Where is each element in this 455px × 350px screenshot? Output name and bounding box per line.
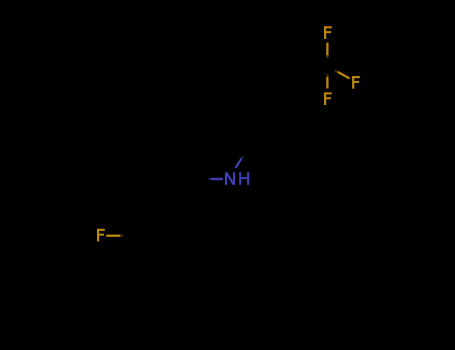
wire fade C-F1: [326, 55, 328, 58]
wire fade F4-C: [120, 235, 123, 237]
wire fade N-C: [242, 156, 244, 158]
wire bond C-F3 (goldenrod half): [326, 77, 328, 89]
wire bond N-C diagonal (blue half): [236, 158, 242, 168]
fluorine F2 label (right of CF3): [352, 76, 360, 89]
wire bond F4-C (goldenrod half): [106, 235, 120, 237]
wire fade C-F3: [326, 74, 328, 77]
wire bond C-F1 (goldenrod half, fades to carbon): [326, 43, 328, 56]
fluorine F3 label (bottom of CF3): [324, 92, 332, 105]
fluorine F1 label (top of CF3): [324, 26, 332, 39]
fluorine F4 label (left, aryl fluoride): [97, 229, 105, 242]
amine H letter: [239, 172, 249, 185]
wire fade C-F2: [335, 70, 338, 72]
wire bond C-F2 (goldenrod half): [338, 72, 350, 79]
wire bond C-N horizontal (blue half): [211, 178, 223, 180]
amine N letter: [225, 172, 235, 185]
wire fade C-N: [208, 178, 211, 180]
